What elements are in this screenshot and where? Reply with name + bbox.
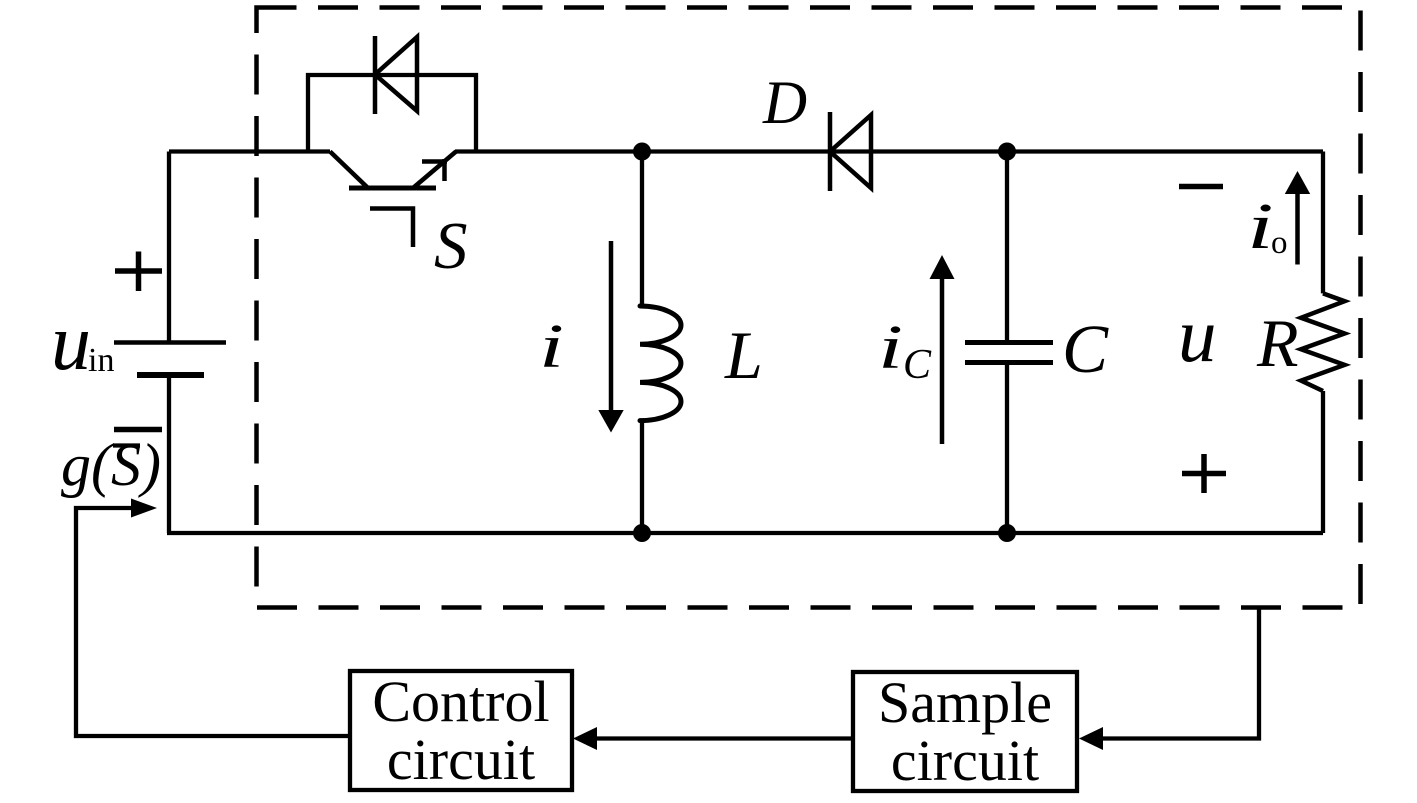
resistor R zigzag	[1301, 293, 1345, 391]
converter boundary dashed box	[257, 8, 1361, 608]
label - (output negative top)	[1179, 184, 1223, 190]
svg-text:R: R	[1256, 305, 1299, 381]
transistor S base bar	[349, 186, 436, 191]
arrow: inductor current i	[609, 241, 614, 413]
arrowhead gate drive	[131, 499, 157, 518]
node: top of capacitor	[998, 143, 1016, 161]
inductor L coil	[640, 306, 681, 421]
capacitor C top plate	[965, 340, 1053, 345]
node: bottom of inductor	[633, 524, 651, 542]
wire: inductor bottom lead	[640, 421, 644, 533]
svg-text:i: i	[1247, 189, 1274, 262]
battery u_in short plate (-)	[137, 372, 204, 378]
svg-text:g(S): g(S)	[61, 432, 161, 498]
svg-text:u: u	[1178, 292, 1217, 378]
svg-text:circuit: circuit	[891, 728, 1039, 793]
transistor S gate lead	[370, 209, 413, 248]
svg-text:D: D	[762, 70, 807, 137]
arrow: capacitor current i_C	[940, 276, 945, 444]
antiparallel diode cathode bar	[373, 36, 378, 114]
wire: right vertical bottom lead	[1321, 391, 1325, 533]
svg-text:i: i	[878, 313, 903, 382]
svg-text:S: S	[434, 209, 468, 283]
wire: sample to control	[584, 736, 853, 740]
svg-text:Sample: Sample	[878, 670, 1052, 735]
arrowhead into sample circuit	[1079, 727, 1103, 750]
diode D triangle	[830, 115, 871, 188]
svg-text:o: o	[1271, 225, 1288, 261]
label - (battery negative)	[114, 427, 162, 433]
svg-text:Control: Control	[372, 669, 549, 734]
wire: sample feedback from output	[1090, 608, 1259, 739]
wire: top rail left segment (source to transistor)	[169, 149, 330, 153]
label + (battery positive)	[115, 252, 162, 292]
wire: inductor top lead	[640, 152, 644, 307]
node: bottom of capacitor	[998, 524, 1016, 542]
capacitor C bottom plate	[965, 360, 1053, 365]
battery u_in long plate (+)	[114, 340, 226, 345]
control circuit box	[350, 671, 572, 790]
svg-text:i: i	[539, 312, 564, 381]
sample circuit box	[853, 672, 1077, 791]
svg-text:in: in	[88, 342, 114, 379]
transistor S collector arrow barbs	[422, 159, 447, 181]
arrow: output current i_o	[1295, 192, 1300, 265]
wire: capacitor top lead	[1005, 152, 1009, 343]
label + (output positive bottom)	[1182, 454, 1226, 493]
wire: capacitor bottom lead	[1005, 363, 1009, 534]
svg-text:u: u	[51, 299, 91, 387]
label g(S bar) gate signal	[61, 432, 161, 498]
transistor S collector diagonal	[413, 152, 456, 189]
wire: gate drive feedback from control circuit	[76, 508, 350, 736]
svg-text:L: L	[724, 317, 763, 393]
wire: top rail right segment (transistor to right corner, through diode D)	[455, 149, 1323, 153]
node: top of inductor	[633, 143, 651, 161]
wire: left vertical from battery to bottom rail	[167, 375, 171, 533]
wire: right vertical top lead to resistor	[1321, 152, 1325, 294]
svg-text:C: C	[1062, 311, 1109, 387]
wire: bottom rail	[167, 531, 1323, 535]
diode D cathode bar	[828, 112, 833, 191]
wire: left vertical from top rail to battery	[167, 152, 171, 343]
arrowhead into control circuit	[573, 727, 597, 750]
wire: antiparallel diode branch	[308, 75, 476, 152]
svg-text:C: C	[903, 342, 932, 388]
svg-text:circuit: circuit	[387, 727, 535, 792]
antiparallel diode triangle	[375, 37, 417, 111]
transistor S emitter diagonal	[330, 152, 368, 189]
